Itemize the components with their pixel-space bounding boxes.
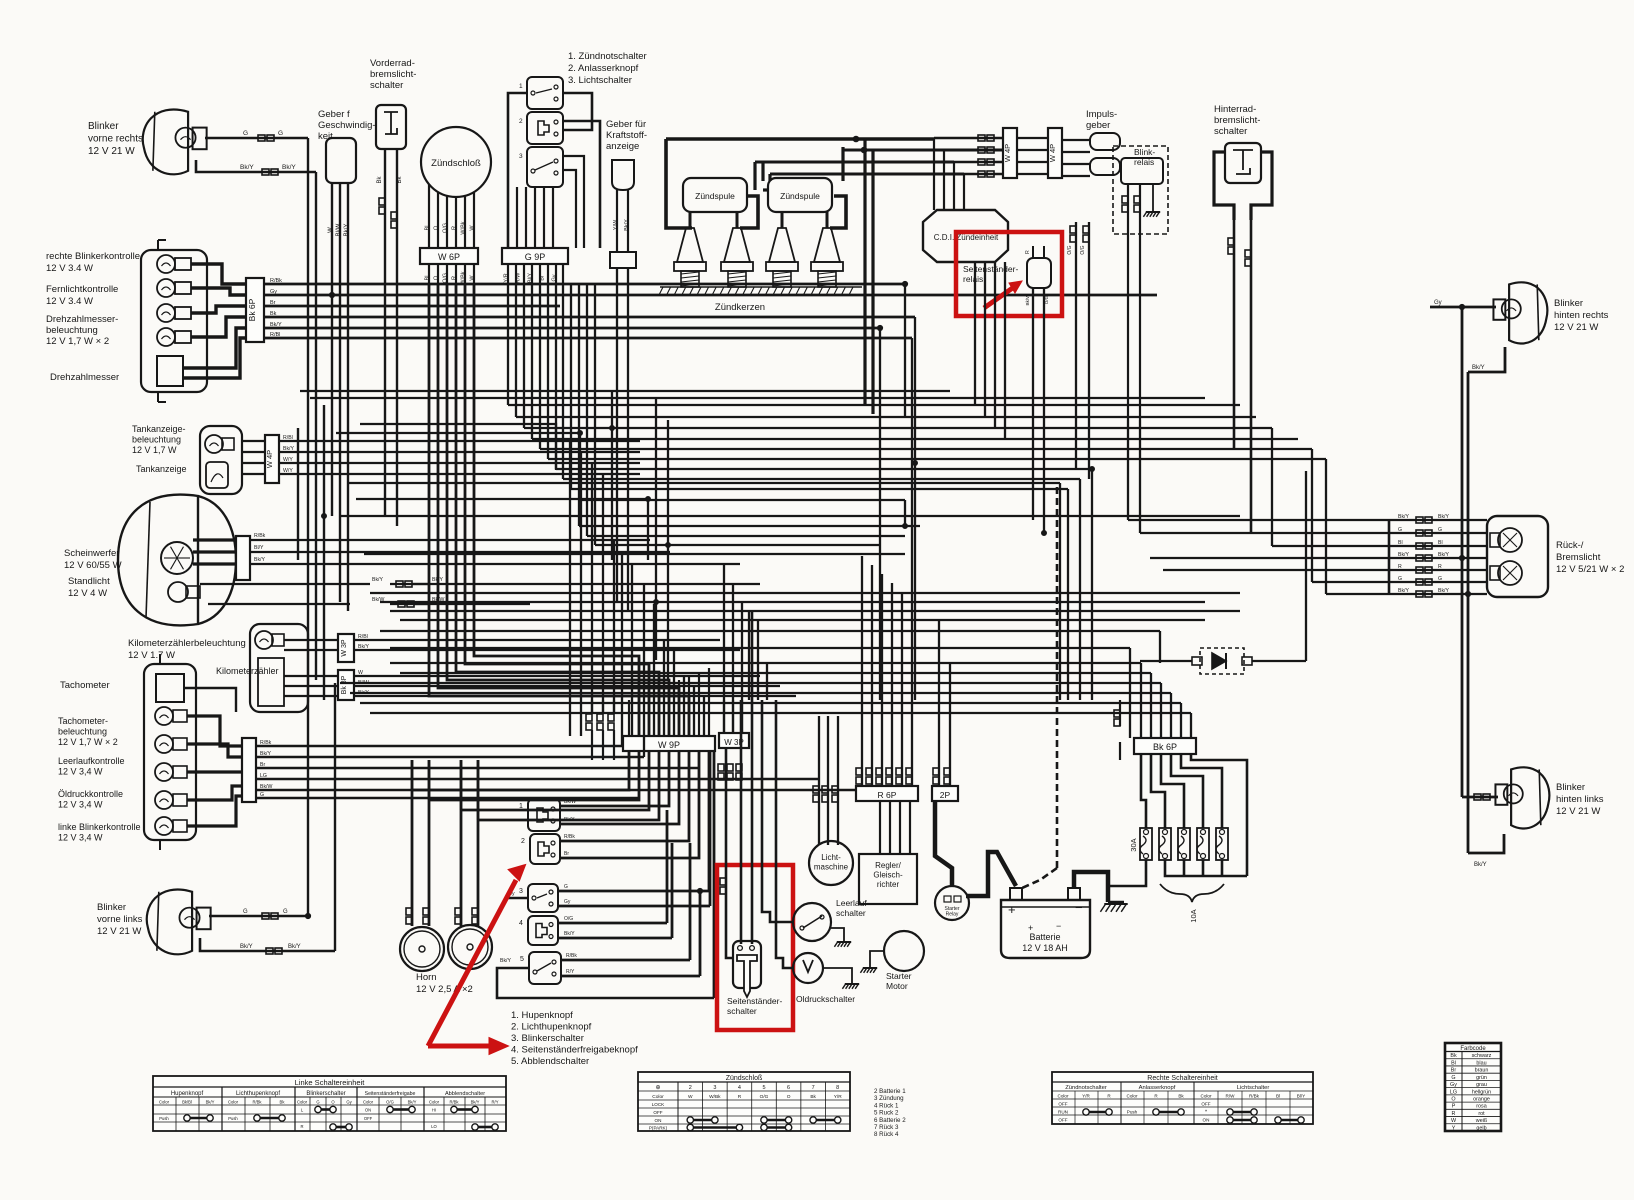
- svg-text:hinten rechts: hinten rechts: [1554, 310, 1609, 321]
- svg-text:2. Anlasserknopf: 2. Anlasserknopf: [568, 63, 639, 74]
- svg-text:maschine: maschine: [814, 863, 849, 872]
- wire into switch 3 left: [505, 897, 528, 899]
- svg-text:G: G: [564, 884, 568, 890]
- svg-text:⊕: ⊕: [655, 1085, 660, 1091]
- svg-text:rechte Blinkerkontrolle: rechte Blinkerkontrolle: [46, 251, 140, 262]
- thick verticals from coil bus down to primary bus: [863, 139, 866, 406]
- svg-text:Bk/Y: Bk/Y: [372, 577, 383, 583]
- svg-text:Push: Push: [159, 1116, 169, 1121]
- svg-text:Bk 3P: Bk 3P: [341, 675, 348, 694]
- svg-text:Bk: Bk: [1178, 1094, 1184, 1099]
- svg-text:Bk/Y: Bk/Y: [408, 1100, 417, 1105]
- handlebar switch stack left: [528, 799, 560, 831]
- wires CDI top to W4P: [934, 137, 1003, 139]
- svg-text:Oldruckschalter: Oldruckschalter: [796, 994, 855, 1004]
- svg-text:Br: Br: [270, 300, 276, 306]
- svg-text:Linke Schaltereinheit: Linke Schaltereinheit: [295, 1078, 366, 1087]
- svg-text:Hupenknopf: Hupenknopf: [171, 1091, 204, 1097]
- svg-text:4: 4: [738, 1085, 741, 1091]
- junctions tail bundle: [1459, 555, 1464, 560]
- svg-text:OFF: OFF: [1201, 1102, 1210, 1107]
- svg-text:3: 3: [519, 153, 523, 160]
- wires R6P to regulator: [879, 801, 881, 854]
- tail lamp wire bundle: [1128, 519, 1487, 521]
- battery terminals: [1010, 888, 1022, 900]
- svg-text:Zündkerzen: Zündkerzen: [715, 302, 765, 313]
- svg-text:W: W: [470, 225, 476, 231]
- svg-text:Gy: Gy: [564, 899, 571, 905]
- svg-text:W 6P: W 6P: [438, 252, 460, 262]
- svg-text:4: 4: [519, 920, 523, 927]
- wires W4P right to Impulsgeber: [1062, 139, 1090, 141]
- svg-text:G: G: [243, 909, 248, 915]
- svg-text:Kilometerzähler: Kilometerzähler: [216, 666, 279, 676]
- svg-text:Bk/Y: Bk/Y: [1438, 588, 1449, 594]
- main ground point: [1104, 903, 1127, 905]
- svg-text:R/Bk: R/Bk: [1249, 1094, 1260, 1099]
- svg-text:G: G: [1451, 1075, 1455, 1081]
- wires above W3P: [723, 700, 725, 733]
- mid-right verticals from CDI and relays: [974, 262, 976, 405]
- svg-text:R/Bk: R/Bk: [566, 953, 577, 959]
- svg-text:Gy: Gy: [552, 274, 558, 281]
- risers above W3P bottom: [723, 564, 725, 733]
- svg-text:4 Rück 1: 4 Rück 1: [874, 1102, 899, 1109]
- svg-text:hinten links: hinten links: [1556, 794, 1604, 805]
- svg-text:Bl: Bl: [1451, 1060, 1456, 1066]
- svg-text:HI: HI: [432, 1108, 436, 1113]
- svg-text:Bl/Y: Bl/Y: [1297, 1094, 1305, 1099]
- svg-text:Blinkerschalter: Blinkerschalter: [306, 1091, 345, 1097]
- table Farbcode: [1445, 1043, 1501, 1131]
- svg-text:ON: ON: [655, 1118, 662, 1123]
- wires below Blinkrelais: [1127, 184, 1129, 420]
- svg-text:Farbcode: Farbcode: [1460, 1046, 1486, 1052]
- lamp Blinker vorne rechts: [143, 110, 188, 175]
- svg-text:G 9P: G 9P: [525, 252, 546, 262]
- ground in Blinkrelais box: [1152, 184, 1154, 212]
- svg-text:Gy: Gy: [1434, 300, 1442, 306]
- thick coil bus rows to right: [666, 137, 934, 140]
- svg-text:R/Bl: R/Bl: [283, 435, 293, 441]
- svg-text:G: G: [278, 130, 283, 137]
- connector 2P: [932, 786, 958, 801]
- svg-text:schalter: schalter: [727, 1006, 757, 1016]
- chain wire to battery area: [1056, 487, 1059, 868]
- thick cable from relay going up: [935, 802, 952, 886]
- svg-text:Tankanzeige: Tankanzeige: [136, 464, 187, 474]
- svg-text:Bk/Y: Bk/Y: [1474, 862, 1487, 868]
- wires below G9P: [507, 264, 509, 284]
- regulator Regler/Gleichrichter: [859, 854, 917, 904]
- svg-text:Batterie: Batterie: [1029, 932, 1060, 942]
- odometer Kilometerzahler unit: [250, 624, 308, 712]
- wire Gy to rear right blinker: [1430, 306, 1496, 309]
- right trunk wire BkY down: [1467, 372, 1470, 853]
- connector R 6P: [856, 786, 918, 801]
- svg-text:R/Bk: R/Bk: [449, 1100, 459, 1105]
- svg-text:12 V 1,7 W: 12 V 1,7 W: [132, 445, 177, 455]
- svg-text:3: 3: [713, 1085, 716, 1091]
- svg-text:−: −: [1056, 921, 1061, 931]
- svg-text:Blink-: Blink-: [1134, 147, 1155, 157]
- fuse 4: [1197, 828, 1209, 860]
- svg-text:Geber f: Geber f: [318, 109, 350, 120]
- svg-text:Bk/Y: Bk/Y: [254, 557, 265, 563]
- svg-text:3 Zündung: 3 Zündung: [874, 1095, 904, 1102]
- red arrow horizontal: [428, 1044, 492, 1049]
- svg-text:12 V 2,5 A ×2: 12 V 2,5 A ×2: [416, 984, 473, 995]
- table Rechte Schaltereinheit: [1052, 1072, 1313, 1124]
- svg-text:OFF: OFF: [364, 1116, 373, 1121]
- svg-text:Gy: Gy: [270, 289, 277, 295]
- ground for neutral switch: [831, 928, 844, 942]
- fuel gauge Tankanzeige unit: [200, 426, 242, 494]
- svg-text:Color: Color: [159, 1100, 170, 1105]
- svg-text:O: O: [434, 225, 440, 230]
- svg-text:Zündschloß: Zündschloß: [431, 158, 481, 169]
- svg-text:7 Rück 3: 7 Rück 3: [874, 1124, 899, 1131]
- svg-text:R/Y: R/Y: [492, 1100, 499, 1105]
- svg-text:Bk/Y: Bk/Y: [240, 944, 253, 950]
- svg-text:Bl: Bl: [425, 226, 431, 231]
- svg-text:30A: 30A: [1129, 838, 1138, 851]
- svg-text:O: O: [787, 1094, 791, 1100]
- svg-text:Push: Push: [228, 1116, 238, 1121]
- svg-text:4. Seitenständerfreigabeknopf: 4. Seitenständerfreigabeknopf: [511, 1045, 638, 1056]
- ignition switch Zundschloss: [421, 127, 491, 197]
- svg-text:5. Abblendschalter: 5. Abblendschalter: [511, 1056, 589, 1067]
- svg-text:Zündschloß: Zündschloß: [726, 1075, 763, 1082]
- spark plug 4: [814, 228, 840, 262]
- wires at diode: [1140, 660, 1192, 662]
- svg-text:−: −: [1075, 900, 1083, 915]
- svg-text:R/Y: R/Y: [566, 969, 575, 975]
- svg-text:bremslicht-: bremslicht-: [1214, 115, 1260, 126]
- junction dots bottom: [697, 888, 702, 893]
- svg-text:Tachometer-: Tachometer-: [58, 716, 108, 726]
- svg-text:keit: keit: [318, 131, 333, 142]
- svg-text:Zündspule: Zündspule: [780, 191, 820, 201]
- thick battery cable relay to battery plus: [966, 852, 1016, 896]
- svg-text:Lichthupenknopf: Lichthupenknopf: [236, 1091, 280, 1097]
- svg-text:R/W: R/W: [516, 272, 522, 284]
- wire Bk/Y from front right blinker: [196, 160, 316, 172]
- svg-text:Relay: Relay: [946, 912, 959, 918]
- red arrow to side stand relay: [984, 287, 1014, 308]
- fuse 2: [1159, 828, 1171, 860]
- svg-text:OFF: OFF: [1058, 1118, 1067, 1123]
- svg-text:G: G: [1438, 527, 1442, 533]
- svg-text:Bl: Bl: [1398, 540, 1403, 546]
- svg-text:Geber für: Geber für: [606, 119, 646, 130]
- headlamp standlicht bulb: [168, 582, 188, 602]
- svg-text:Bk 6P: Bk 6P: [1153, 742, 1177, 752]
- svg-text:5: 5: [520, 956, 524, 963]
- instrument cluster right indicators: [141, 250, 207, 392]
- svg-text:1. Zündnotschalter: 1. Zündnotschalter: [568, 51, 647, 62]
- neutral switch Leerlaufschalter: [793, 903, 831, 941]
- horn 2: [448, 925, 492, 969]
- svg-text:8: 8: [836, 1085, 839, 1091]
- wires above 2P: [938, 620, 940, 786]
- svg-text:braun: braun: [1475, 1068, 1489, 1074]
- svg-text:O: O: [434, 275, 440, 280]
- svg-text:anzeige: anzeige: [606, 141, 639, 152]
- svg-text:Starter: Starter: [886, 971, 912, 981]
- svg-text:grau: grau: [1476, 1082, 1487, 1088]
- starter relay: [935, 886, 969, 920]
- svg-text:Gy: Gy: [1450, 1082, 1457, 1088]
- svg-text:Bk/Y: Bk/Y: [500, 958, 511, 964]
- junction dots on Bk6P wires: [329, 292, 334, 297]
- ground for oil switch: [823, 968, 852, 984]
- svg-text:LO: LO: [431, 1124, 437, 1129]
- svg-text:Vorderrad-: Vorderrad-: [370, 58, 415, 69]
- ground hatch under spark plugs: [660, 286, 862, 288]
- lamp Blinker hinten rechts: [1509, 282, 1547, 343]
- svg-text:12 V 3,4 W: 12 V 3,4 W: [58, 767, 103, 777]
- svg-text:W 4P: W 4P: [1003, 144, 1012, 162]
- svg-text:12 V 3.4 W: 12 V 3.4 W: [46, 263, 93, 274]
- svg-text:Bremslicht: Bremslicht: [1556, 552, 1601, 563]
- svg-text:schalter: schalter: [370, 80, 403, 91]
- wire mesh downward stubs group A right: [1091, 469, 1093, 700]
- svg-text:Regler/: Regler/: [875, 861, 902, 870]
- wire tacho extra: [183, 688, 236, 712]
- risers from switch rows up to W9P region: [709, 751, 712, 906]
- wires below Geber Geschwindigkeit: [331, 183, 333, 295]
- connector W 4P right: [1048, 128, 1062, 178]
- svg-text:G: G: [243, 130, 248, 137]
- wire G from front left blinker: [209, 915, 311, 918]
- svg-text:12 V 5/21 W × 2: 12 V 5/21 W × 2: [1556, 564, 1624, 575]
- svg-text:Rechte Schaltereinheit: Rechte Schaltereinheit: [1147, 1075, 1217, 1082]
- svg-text:Rück-/: Rück-/: [1556, 540, 1584, 551]
- svg-text:Bk/Y: Bk/Y: [1398, 552, 1409, 558]
- svg-text:Blinker: Blinker: [1554, 298, 1583, 309]
- wires above alternator: [818, 716, 820, 845]
- wires above Bk6P: [1140, 663, 1142, 738]
- fuse 5: [1216, 828, 1228, 860]
- ignition coil Zundspule 2: [768, 178, 832, 212]
- svg-text:Bk: Bk: [397, 176, 403, 184]
- svg-text:Bk/Y: Bk/Y: [624, 219, 630, 231]
- wires headlamp to right: [193, 538, 236, 541]
- gauge Drehzahlmesser box: [157, 356, 183, 386]
- table Zundschloss: [638, 1072, 850, 1131]
- svg-text:hellgrün: hellgrün: [1472, 1089, 1491, 1095]
- svg-text:12 V 18 AH: 12 V 18 AH: [1022, 943, 1068, 953]
- svg-text:R/W: R/W: [1226, 1094, 1236, 1099]
- spark plug 2: [724, 228, 750, 262]
- connector Bk 6P bottom right: [1134, 738, 1196, 754]
- svg-text:Hinterrad-: Hinterrad-: [1214, 104, 1256, 115]
- relay Blink-relais dashed box: [1113, 146, 1168, 234]
- connector symbols below W3P: [718, 764, 724, 771]
- svg-text:3. Lichtschalter: 3. Lichtschalter: [568, 75, 632, 86]
- svg-text:Br: Br: [564, 851, 569, 857]
- svg-text:W/Y: W/Y: [283, 468, 293, 474]
- battery negative cable to ground: [1074, 872, 1108, 902]
- wire mesh horizontal group C: [380, 601, 1205, 603]
- svg-text:OFF: OFF: [653, 1110, 662, 1115]
- svg-text:LOCK: LOCK: [652, 1102, 665, 1107]
- svg-text:ON: ON: [1203, 1118, 1210, 1123]
- handlebar switch stack right (Zundnotschalter/Anlasserknopf/Lichtschalter): [527, 77, 563, 109]
- svg-text:rot: rot: [1478, 1111, 1485, 1117]
- svg-text:R/Bk: R/Bk: [564, 834, 575, 840]
- svg-text:12 V 21 W: 12 V 21 W: [1556, 806, 1600, 817]
- ground for starter motor: [870, 951, 884, 968]
- svg-text:W: W: [688, 1094, 693, 1100]
- svg-text:W 4P: W 4P: [1048, 144, 1057, 162]
- svg-text:W/Bk: W/Bk: [461, 221, 467, 234]
- tail bundle collector bus: [1388, 520, 1391, 594]
- extra junction dots: [578, 431, 583, 436]
- svg-text:G: G: [260, 792, 264, 798]
- connector W 3P bottom: [719, 733, 749, 748]
- wires W6P pins down to W9P staircase: [429, 284, 689, 736]
- svg-text:7: 7: [812, 1085, 815, 1091]
- svg-text:R: R: [738, 1094, 742, 1100]
- svg-text:grün: grün: [1476, 1075, 1487, 1081]
- svg-text:Bk 6P: Bk 6P: [247, 298, 257, 321]
- svg-text:rosa: rosa: [1476, 1104, 1487, 1110]
- spark plug 3: [769, 228, 795, 262]
- svg-text:Bk/Y: Bk/Y: [283, 446, 294, 452]
- svg-text:geber: geber: [1086, 120, 1110, 131]
- svg-text:*: *: [1205, 1110, 1207, 1116]
- svg-text:O/G: O/G: [443, 223, 449, 233]
- starter motor: [884, 931, 924, 971]
- fuse feed staircase from Bk6P: [1141, 754, 1146, 828]
- svg-text:G: G: [283, 909, 288, 915]
- svg-text:W 4P: W 4P: [265, 450, 274, 468]
- svg-text:R/Bl: R/Bl: [358, 634, 368, 640]
- svg-text:gelb: gelb: [1476, 1125, 1486, 1131]
- svg-text:R/Bk: R/Bk: [252, 1100, 262, 1105]
- svg-text:2 Batterie 1: 2 Batterie 1: [874, 1088, 906, 1095]
- switch Vorderrad-bremslichtschalter: [376, 105, 406, 149]
- spark plug 1: [677, 228, 703, 262]
- svg-text:schalter: schalter: [836, 908, 866, 918]
- svg-text:Color: Color: [363, 1100, 374, 1105]
- svg-text:12 V 3,4 W: 12 V 3,4 W: [58, 800, 103, 810]
- connector Bk 3P instrument: [338, 670, 354, 700]
- connector W 4P instrument: [265, 435, 279, 483]
- svg-text:5 Ruck 2: 5 Ruck 2: [874, 1110, 899, 1117]
- wires ignition switch to W6P: [428, 184, 430, 248]
- svg-text:12 V 1,7 W × 2: 12 V 1,7 W × 2: [46, 336, 109, 347]
- svg-text:C.D.I. Zündeinheit: C.D.I. Zündeinheit: [934, 233, 999, 242]
- right mid verticals down from bk6p bundle: [904, 284, 906, 418]
- side stand relay symbol: [1027, 258, 1051, 288]
- extra mesh staircase lines for density: [336, 433, 905, 500]
- svg-text:Y/R: Y/R: [1082, 1094, 1090, 1099]
- svg-text:Tachometer: Tachometer: [60, 680, 110, 691]
- svg-text:12 V 1,7 W × 2: 12 V 1,7 W × 2: [58, 737, 118, 747]
- wires Bk6P to the right: [264, 283, 905, 286]
- svg-text:Color: Color: [1058, 1094, 1069, 1099]
- svg-text:12 V 21 W: 12 V 21 W: [1554, 322, 1598, 333]
- svg-text:Scheinwerfer: Scheinwerfer: [64, 548, 119, 559]
- svg-text:R: R: [1452, 1111, 1456, 1117]
- wires tank unit to W4P and right: [242, 440, 265, 442]
- alternator Lichtmaschine: [809, 841, 853, 885]
- svg-text:Bk/W: Bk/W: [260, 784, 272, 790]
- wires below rear brake switch: [1233, 220, 1236, 449]
- svg-text:Geschwindig-: Geschwindig-: [318, 120, 376, 131]
- connector W 3P instrument: [338, 634, 354, 662]
- switch link symbols middle table: [687, 1117, 693, 1123]
- svg-text:W 3P: W 3P: [341, 639, 348, 656]
- svg-text:Bk/Y: Bk/Y: [1438, 552, 1449, 558]
- battery: [1001, 900, 1090, 958]
- svg-text:6 Batterie 2: 6 Batterie 2: [874, 1117, 906, 1124]
- wires cluster to Bk6P: [191, 264, 246, 284]
- svg-text:3: 3: [519, 888, 523, 895]
- svg-text:O/G: O/G: [1080, 245, 1086, 254]
- svg-text:Leerlauf-: Leerlauf-: [836, 898, 870, 908]
- svg-text:Bl: Bl: [425, 276, 431, 281]
- svg-text:G: G: [316, 1100, 319, 1105]
- svg-text:G: G: [1398, 527, 1402, 533]
- right trunk wire Gy down: [1461, 307, 1464, 797]
- wire mesh long horizontals to Bk6P: [390, 662, 1141, 664]
- svg-text:Br: Br: [540, 275, 546, 281]
- svg-text:relais: relais: [963, 274, 983, 284]
- thick feed wires to coils: [666, 139, 692, 228]
- svg-text:Color: Color: [429, 1100, 440, 1105]
- wires below W9P staircase to horns: [412, 751, 629, 790]
- connector W 4P left: [1003, 128, 1017, 178]
- svg-text:12 V 3.4 W: 12 V 3.4 W: [46, 296, 93, 307]
- svg-text:Gy: Gy: [346, 1100, 352, 1105]
- svg-text:Bl: Bl: [1276, 1094, 1280, 1099]
- svg-text:W/Y: W/Y: [283, 457, 293, 463]
- svg-text:Bk/Bl: Bk/Bl: [182, 1100, 192, 1105]
- svg-text:Seitenständerfreigabe: Seitenständerfreigabe: [365, 1091, 416, 1097]
- svg-text:Color: Color: [297, 1100, 308, 1105]
- svg-text:6: 6: [787, 1085, 790, 1091]
- svg-text:W: W: [358, 670, 363, 676]
- wires above R6P: [861, 556, 863, 786]
- svg-text:P: P: [1452, 1104, 1456, 1110]
- headlamp main bulb: [161, 542, 193, 574]
- tail lamp Ruck-/Bremslicht: [1487, 516, 1548, 597]
- svg-text:Bk/Y: Bk/Y: [288, 944, 301, 950]
- wires below fuel sender: [616, 190, 618, 252]
- wires above horns: [411, 760, 414, 926]
- brace under fuses: [1160, 884, 1224, 902]
- side stand switch symbol: [733, 941, 761, 988]
- svg-text:richter: richter: [877, 880, 900, 889]
- svg-text:schwarz: schwarz: [1472, 1053, 1492, 1059]
- svg-text:R/Bk: R/Bk: [270, 278, 282, 284]
- svg-text:vorne rechts: vorne rechts: [88, 134, 143, 145]
- svg-text:orange: orange: [1473, 1096, 1490, 1102]
- CDI unit C.D.I. Zundeinheit: [923, 210, 1008, 262]
- svg-text:W: W: [328, 227, 334, 233]
- svg-text:Y/R: Y/R: [504, 273, 510, 282]
- wires into side stand switch: [725, 748, 728, 903]
- svg-text:10A: 10A: [1189, 909, 1198, 922]
- svg-text:Color: Color: [1127, 1094, 1138, 1099]
- svg-text:Drehzahlmesser: Drehzahlmesser: [50, 372, 119, 383]
- svg-text:Bk/Y: Bk/Y: [240, 164, 254, 171]
- svg-text:Blinker: Blinker: [1556, 782, 1585, 793]
